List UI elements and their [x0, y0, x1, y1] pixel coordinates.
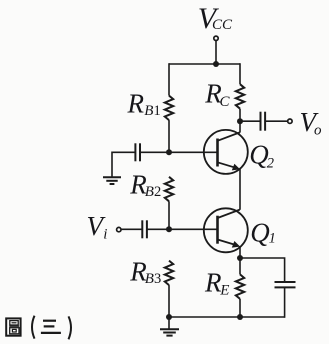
caption close paren	[69, 316, 72, 339]
svg-text:1: 1	[269, 230, 276, 246]
transistor Q1	[204, 208, 248, 252]
ground G1	[160, 329, 179, 335]
wire node A to capacitor C2	[140, 151, 169, 153]
wire emitter node to capacitor CE	[240, 258, 285, 282]
node B junction	[166, 226, 172, 232]
svg-text:2: 2	[267, 155, 274, 171]
wire Vi to capacitor Ci	[122, 228, 143, 230]
svg-text:Q: Q	[250, 217, 269, 247]
svg-text:C: C	[220, 94, 231, 110]
wire collector node to capacitor Co	[240, 120, 260, 122]
capacitor Ci plates	[142, 220, 147, 238]
ground G2	[103, 177, 121, 184]
wire node A to Q2 base	[169, 151, 218, 153]
wire Q2 emitter to Q1 collector	[239, 169, 241, 210]
caption open paren	[32, 316, 35, 339]
svg-text:B2: B2	[145, 184, 161, 200]
wire RB1 to node A	[168, 120, 170, 152]
resistor RC	[236, 84, 244, 109]
wire bottom rail	[169, 316, 285, 318]
terminal Vo	[288, 119, 292, 123]
junction VCC rail	[213, 61, 219, 67]
terminal Vi	[117, 227, 121, 231]
wire RB2 to node B	[168, 201, 170, 229]
wire RB3 to ground node	[168, 285, 170, 317]
junction emitter node	[237, 255, 243, 261]
wire collector node into Q2	[239, 121, 241, 132]
capacitor Co plates	[261, 112, 266, 131]
svg-text:o: o	[314, 122, 322, 138]
wire left branch top	[168, 63, 170, 95]
wire Ci to node B	[147, 228, 169, 230]
resistor RB2	[165, 177, 173, 202]
junction ground node	[166, 314, 172, 320]
resistor RB3	[165, 261, 173, 286]
wire emitter node into RE	[239, 258, 241, 274]
svg-text:B3: B3	[145, 271, 161, 287]
svg-text:R: R	[127, 89, 145, 119]
terminal VCC	[214, 36, 218, 40]
wire Co to terminal Vo	[265, 120, 287, 122]
wire RC to collector node	[239, 109, 241, 122]
junction RE bottom node	[237, 314, 243, 320]
svg-text:i: i	[103, 227, 107, 243]
svg-text:R: R	[204, 268, 222, 298]
wire top rail	[169, 63, 240, 65]
wire RE to bottom node	[239, 299, 241, 317]
capacitor C2 plates	[135, 143, 140, 161]
resistor RB1	[165, 96, 173, 121]
svg-text:E: E	[219, 283, 229, 299]
node A junction	[166, 149, 172, 155]
caption glyph 三	[41, 321, 61, 333]
svg-text:CC: CC	[212, 17, 233, 33]
capacitor CE plates	[275, 282, 296, 287]
resistor RE	[236, 274, 244, 299]
wire node to ground G1	[168, 317, 170, 329]
wire Q1 emitter to emitter node	[239, 246, 241, 258]
wire node B to Q1 base	[169, 228, 218, 230]
wire CE to bottom rail	[284, 287, 286, 317]
caption figure glyph 圖	[6, 318, 20, 335]
wire RC branch top	[239, 63, 241, 84]
wire C2 to ground	[112, 152, 135, 177]
transistor Q2	[204, 130, 248, 174]
junction collector node	[237, 118, 243, 124]
svg-text:B1: B1	[144, 103, 160, 119]
wire VCC to rail	[215, 41, 217, 64]
